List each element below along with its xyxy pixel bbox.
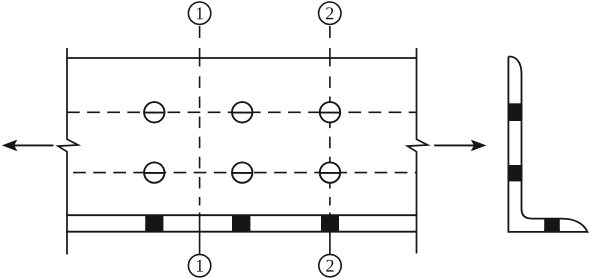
left force arrow: [2, 140, 54, 152]
plate right edge with break symbol: [408, 48, 428, 254]
grid bubble 2 bottom: [319, 254, 341, 276]
side view weld band middle: [508, 165, 523, 181]
bottom flange band bottom line: [66, 231, 417, 233]
plate top edge: [66, 57, 417, 59]
plate left edge with break symbol: [58, 48, 78, 255]
right force arrow: [434, 140, 486, 152]
hole A3: [320, 102, 340, 122]
side view weld band bottom: [544, 218, 560, 232]
grid line 1 dashed vertical: [199, 26, 201, 254]
grid bubble 2 top: [319, 2, 341, 24]
svg-text:1: 1: [195, 256, 204, 276]
grid line 2 dashed vertical: [329, 26, 331, 254]
side view weld band top: [508, 103, 523, 121]
stitch weld block 2: [232, 215, 250, 232]
hole row centerline 2 (dashed): [67, 172, 417, 174]
bottom flange band top line: [66, 214, 417, 216]
grid bubble 1 bottom: [188, 254, 210, 276]
svg-text:2: 2: [325, 3, 334, 23]
hole B1: [144, 162, 164, 182]
hole row centerline 1 (dashed): [67, 111, 417, 113]
svg-text:2: 2: [325, 256, 334, 276]
svg-text:1: 1: [195, 3, 204, 23]
hole A1: [144, 102, 164, 122]
grid bubble 1 top: [188, 2, 210, 24]
hole A2: [232, 102, 252, 122]
side view angle outline: [508, 57, 587, 232]
stitch weld block 1: [145, 215, 163, 232]
hole B3: [320, 162, 340, 182]
stitch weld block 3: [321, 215, 339, 232]
hole B2: [232, 162, 252, 182]
